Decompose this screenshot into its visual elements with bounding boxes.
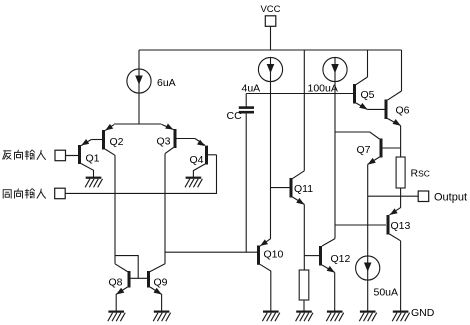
ground under 50uA bbox=[359, 312, 376, 322]
ground under Q9 bbox=[153, 312, 170, 322]
designator label Q7 bbox=[357, 144, 371, 156]
transistor Q3 bbox=[161, 123, 195, 153]
label 同向输入 (non-inverting input) bbox=[3, 189, 46, 199]
ground under Q1 bbox=[85, 178, 102, 188]
transistor Q5 bbox=[355, 77, 368, 110]
wire non-inverting input to Q4 base bbox=[65, 155, 216, 194]
wire Q13 emitter from output node bbox=[390, 196, 401, 215]
svg-text:Q5: Q5 bbox=[361, 89, 375, 101]
designator label Q11 bbox=[294, 183, 313, 195]
wire R1 to ground bbox=[303, 300, 305, 311]
ground under Q10 bbox=[262, 312, 279, 322]
ground under Q13 bbox=[392, 312, 409, 322]
designator label RSC bbox=[411, 168, 430, 180]
transistor Q8 bbox=[115, 264, 129, 311]
value label 50uA bbox=[374, 287, 399, 299]
node Output terminal pad bbox=[418, 191, 429, 202]
wire Q3 base to Q4 emitter bbox=[195, 139, 205, 146]
label 反向输入 (inverting input) bbox=[3, 150, 46, 160]
value label CC bbox=[227, 110, 243, 122]
wire top rail right corner to Q6 bbox=[401, 50, 403, 91]
designator label Q12 bbox=[331, 253, 351, 265]
value label 6uA bbox=[157, 77, 176, 89]
svg-text:Q13: Q13 bbox=[391, 220, 411, 232]
wire output node down to 50uA bbox=[367, 196, 369, 256]
wire RSC bottom to output node bbox=[400, 188, 402, 196]
svg-text:Q4: Q4 bbox=[190, 154, 204, 166]
ground under Q12 bbox=[326, 312, 343, 322]
svg-text:Q9: Q9 bbox=[154, 277, 168, 289]
wire Q5 collector to rail bbox=[367, 50, 369, 77]
wire Q11 emitter down to Q12 base node bbox=[303, 204, 305, 270]
svg-text:Q12: Q12 bbox=[331, 253, 351, 265]
wire 50uA to ground bbox=[367, 280, 369, 311]
svg-text:50uA: 50uA bbox=[374, 287, 399, 299]
wire 6uA to input-pair emitter rail bbox=[138, 93, 140, 124]
ground under Q4 bbox=[185, 178, 202, 188]
svg-text:Q11: Q11 bbox=[294, 183, 313, 195]
wire VCC pad to top rail bbox=[270, 26, 272, 50]
current source I3 100uA bbox=[323, 57, 347, 81]
wire Q12 emitter to ground bbox=[334, 272, 336, 311]
wire Q9/Q3 node to Q10 base bbox=[165, 251, 257, 253]
wire Q13 collector to ground bbox=[400, 241, 402, 311]
wire 100uA node down to Q12 collector bbox=[334, 81, 336, 239]
wire top VCC rail bbox=[139, 49, 402, 51]
designator label Q8 bbox=[109, 277, 123, 289]
designator label Q6 bbox=[396, 105, 410, 117]
svg-text:Q8: Q8 bbox=[109, 277, 123, 289]
transistor Q13 bbox=[388, 208, 401, 240]
svg-text:6uA: 6uA bbox=[157, 77, 176, 89]
transistor Q1 bbox=[65, 139, 94, 177]
resistor RSC bbox=[396, 157, 405, 188]
transistor Q7 bbox=[335, 132, 401, 165]
wire output node line bbox=[368, 195, 418, 197]
transistor Q2 bbox=[104, 124, 116, 155]
wire Q2 collector down to Q8 bbox=[114, 155, 116, 263]
wire Q5 emitter to Q6 base bbox=[367, 108, 384, 110]
wire rail corner down to 6uA source bbox=[138, 50, 140, 70]
wire Q13 base line bbox=[335, 224, 386, 226]
svg-text:Q3: Q3 bbox=[157, 136, 171, 148]
transistor Q10 bbox=[259, 239, 271, 311]
svg-text:4uA: 4uA bbox=[242, 83, 261, 95]
svg-text:GND: GND bbox=[411, 307, 435, 319]
current source I2 4uA bbox=[258, 57, 282, 81]
designator label Q10 bbox=[264, 249, 284, 261]
node inverting input pad bbox=[55, 150, 66, 161]
svg-text:Q7: Q7 bbox=[357, 144, 371, 156]
transistor Q6 bbox=[386, 91, 402, 126]
wire emitter rail of Q2/Q3 bbox=[114, 123, 161, 125]
transistor Q9 bbox=[149, 264, 166, 311]
label Output bbox=[434, 191, 467, 203]
designator label Q1 bbox=[86, 153, 100, 165]
designator label Q5 bbox=[361, 89, 375, 101]
value label 100uA bbox=[308, 83, 338, 95]
label VCC bbox=[260, 4, 280, 15]
current source I4 50uA bbox=[356, 256, 380, 280]
designator label Q9 bbox=[154, 277, 168, 289]
transistor Q4 bbox=[193, 140, 216, 177]
svg-text:RSC: RSC bbox=[411, 168, 430, 180]
svg-text:Output: Output bbox=[434, 191, 467, 203]
svg-text:100uA: 100uA bbox=[308, 83, 338, 95]
value label 4uA bbox=[242, 83, 261, 95]
svg-text:Q1: Q1 bbox=[86, 153, 100, 165]
wire Q11 base from 4uA column bbox=[271, 187, 290, 189]
wire Q8 collector-base jog bbox=[115, 256, 138, 279]
svg-text:Q2: Q2 bbox=[110, 136, 124, 148]
ground under R1 bbox=[296, 312, 313, 322]
designator label Q4 bbox=[190, 154, 204, 166]
wire Q7 emitter down to output node bbox=[367, 164, 369, 196]
capacitor CC bbox=[239, 94, 254, 253]
wire Q11 collector to top rail bbox=[303, 50, 305, 171]
transistor Q11 bbox=[291, 171, 305, 205]
node VCC terminal pad bbox=[265, 16, 276, 26]
wire Q8 base rail to Q9 bbox=[131, 277, 148, 279]
wire Q1 emitter to Q2 base bbox=[91, 139, 102, 141]
node non-inverting input pad bbox=[55, 188, 65, 199]
wire inverting input to Q1 base bbox=[66, 155, 79, 157]
wire 4uA node down to Q10 emitter bbox=[270, 81, 272, 239]
wire Q12 collector diag bbox=[322, 239, 335, 246]
svg-text:Q6: Q6 bbox=[396, 105, 410, 117]
wire 4uA node to Q5 base bbox=[246, 93, 353, 95]
label GND net bbox=[411, 307, 435, 319]
svg-text:Q10: Q10 bbox=[264, 249, 284, 261]
resistor R1 Q12-base to ground bbox=[299, 270, 309, 300]
wire Q6 emitter down to Q7 base and Rsc bbox=[400, 126, 402, 157]
ground under Q8 bbox=[108, 312, 125, 322]
wire Q3 collector down to Q9 bbox=[164, 154, 166, 264]
svg-text:VCC: VCC bbox=[260, 4, 280, 15]
transistor Q12 bbox=[304, 246, 335, 273]
designator label Q2 bbox=[110, 136, 124, 148]
svg-text:CC: CC bbox=[227, 110, 243, 122]
designator label Q3 bbox=[157, 136, 171, 148]
current source I1 6uA bbox=[127, 69, 151, 93]
designator label Q13 bbox=[391, 220, 411, 232]
